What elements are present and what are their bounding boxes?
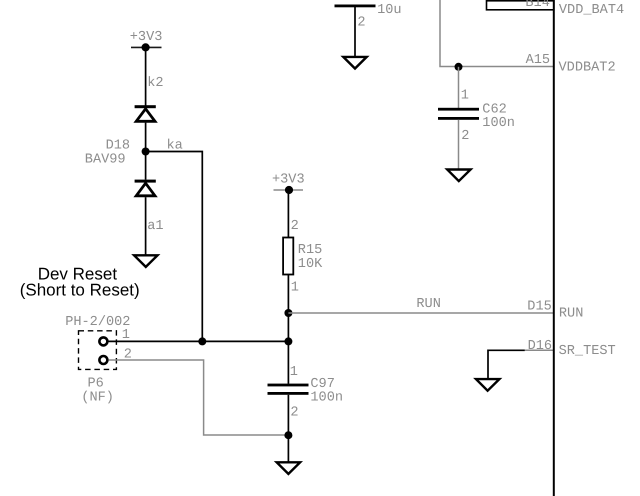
svg-text:D15: D15 [527, 300, 551, 315]
node RUN junction dot [284, 309, 292, 317]
capacitor C62 plates [438, 108, 479, 120]
wire R15 pin1 down to C97 pin 1 [287, 275, 289, 384]
power +3V3 symbol (middle) [272, 173, 305, 195]
svg-text:2: 2 [290, 406, 298, 421]
ground symbol under D18 [134, 255, 157, 267]
wire VDDBAT2 net (gray) from top down and right to IC pin A15 [440, 0, 554, 67]
ground symbol under C62 [447, 170, 470, 182]
junction dot VDDBAT2 / C62 [455, 63, 463, 71]
wire diode1 anode to junction ka [145, 123, 147, 180]
svg-text:100n: 100n [310, 391, 343, 406]
svg-text:2: 2 [291, 219, 299, 234]
svg-text:2: 2 [461, 129, 469, 144]
svg-text:BAV99: BAV99 [85, 152, 126, 167]
svg-text:+3V3: +3V3 [130, 30, 163, 45]
wire C97 pin2 to ground [287, 395, 289, 466]
resistor R15 body [283, 238, 293, 275]
wire 10u pin2 to ground [354, 7, 356, 61]
svg-text:2: 2 [357, 16, 365, 31]
wire ka junction to right then down to P6 pin1 net [146, 152, 203, 342]
svg-text:PH-2/002: PH-2/002 [65, 315, 130, 330]
junction dot pin2 net at bottom [284, 431, 292, 439]
node ka junction dot [142, 148, 150, 156]
wire junction down to C62 pin 1 (gray) [458, 67, 460, 108]
IC U1 left edge [553, 0, 555, 496]
diode D18 lower half (cathode bar + triangle) [135, 180, 156, 196]
svg-text:10K: 10K [298, 257, 323, 272]
junction dot P6 pin1 / ka wire [198, 337, 206, 345]
wire P6 pin1 net to middle column [109, 340, 289, 342]
svg-text:R15: R15 [298, 243, 322, 258]
ground symbol under 10u [343, 57, 366, 69]
svg-text:1: 1 [290, 365, 298, 380]
wire diode2 anode a1 to ground [145, 197, 147, 259]
svg-text:100n: 100n [482, 116, 515, 131]
capacitor C97 plates [268, 384, 309, 395]
svg-text:1: 1 [461, 89, 469, 104]
svg-text:(NF): (NF) [81, 391, 114, 406]
ground symbol under C97 [277, 462, 300, 474]
svg-text:RUN: RUN [559, 306, 583, 321]
connector P6 pin 2 circle [99, 356, 107, 364]
svg-text:SR_TEST: SR_TEST [559, 344, 616, 359]
capacitor 10u bottom plate (top cut off) [335, 5, 376, 8]
svg-text:A15: A15 [526, 53, 550, 68]
svg-text:D16: D16 [528, 339, 552, 354]
pin stub SR_TEST (gray) [525, 349, 554, 351]
power +3V3 symbol (left) [130, 30, 163, 52]
svg-text:(Short to Reset): (Short to Reset) [20, 280, 140, 299]
wire SR_TEST to ground [488, 350, 525, 381]
connector P6 dashed outline [79, 331, 117, 370]
wire B14 net box to IC pin B14 [487, 1, 554, 10]
diode D18 upper half (cathode bar + triangle) [135, 105, 156, 121]
svg-text:VDD_BAT4: VDD_BAT4 [559, 3, 624, 18]
svg-text:B14: B14 [525, 0, 549, 11]
wire +3V3 to R15 pin 2 [287, 190, 289, 238]
svg-text:a1: a1 [147, 219, 163, 234]
svg-text:VDDBAT2: VDDBAT2 [559, 60, 616, 75]
wire P6 pin2 net (gray) right, down, right [109, 360, 289, 435]
wire RUN net (gray) to IC pin D15 [288, 312, 553, 314]
wire C62 pin2 to ground (gray) [458, 120, 460, 173]
svg-text:RUN: RUN [416, 297, 440, 312]
junction dot P6 pin1 / middle column [284, 337, 292, 345]
connector P6 pin 1 circle [99, 337, 107, 345]
svg-text:P6: P6 [88, 377, 104, 392]
wire +3V3 to diode D18 cathode k2 [145, 47, 147, 105]
svg-text:D18: D18 [106, 139, 130, 154]
svg-text:+3V3: +3V3 [272, 173, 305, 188]
ground symbol under SR_TEST [476, 379, 499, 391]
svg-text:1: 1 [291, 281, 299, 296]
svg-text:10u: 10u [377, 3, 401, 18]
svg-text:k2: k2 [147, 76, 163, 91]
